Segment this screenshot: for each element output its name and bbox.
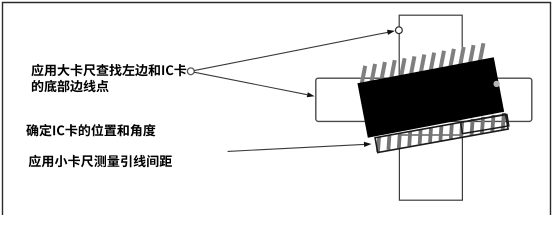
leader circle [187,68,194,75]
bottom lead stripes [376,113,506,152]
text line 2: 确定IC卡的位置和角度 [26,124,155,137]
leader arrow to lead row [228,144,364,151]
lead measurement box (right overlay) [461,115,509,134]
text line 1a: 应用大卡尺查找左边和IC卡 [31,64,186,77]
text line 3: 应用小卡尺测量引线间距 [29,155,172,168]
leader arrow to corner circle [194,32,387,70]
lead measurement box (long) [375,114,508,152]
bottom search region rectangle [399,135,462,200]
corner point circle [396,27,403,34]
leader arrow to region left edge [194,72,307,95]
IC top pins [359,43,485,86]
horizontal search region rectangle [316,78,532,121]
top search region rectangle [399,15,462,75]
text line 1b: 的底部边线点 [32,80,109,93]
IC chip body [357,57,504,138]
pin-1 indicator dot [493,81,499,87]
